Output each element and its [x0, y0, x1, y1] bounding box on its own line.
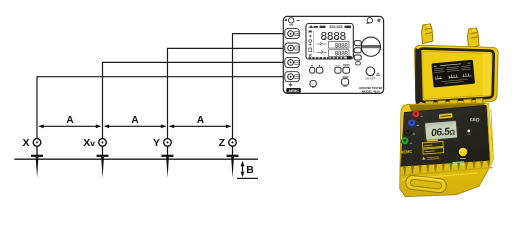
terminal post black — [404, 129, 412, 136]
on/off button — [365, 67, 379, 80]
LCD display frame — [306, 24, 353, 60]
model sticker 4630 — [439, 113, 453, 119]
panel yellow labels block — [421, 140, 444, 160]
lid face right highlight — [483, 53, 492, 95]
wire Xv — [103, 62, 285, 138]
display icon row — [310, 26, 352, 28]
case body — [400, 103, 494, 196]
input terminal E(X) — [285, 72, 300, 82]
svg-text:A: A — [66, 115, 73, 126]
svg-text:CE: CE — [470, 117, 476, 123]
hinge teeth between lid and body — [426, 98, 484, 107]
ground mark under terminals — [289, 83, 293, 87]
button pad mid pair — [335, 65, 350, 74]
input terminal ES(Xv) — [285, 57, 300, 67]
case latch left — [422, 24, 434, 44]
dimension arrow A2 — [104, 124, 167, 128]
stake Y — [162, 146, 174, 178]
AEMC logo badge — [286, 88, 301, 93]
dimension arrow B — [241, 161, 245, 178]
stake Z — [227, 146, 239, 178]
display second row digits — [317, 42, 350, 50]
stake Xv — [97, 146, 109, 178]
case latch right — [468, 28, 480, 48]
input terminal H(Z) — [285, 29, 300, 39]
input terminal S(Y) — [285, 43, 300, 53]
label mini diagrams — [435, 73, 472, 80]
wire Y — [168, 48, 285, 138]
terminal post blue — [408, 120, 416, 128]
hinge shadow gap — [409, 104, 489, 112]
dimension arrow A3 — [169, 124, 232, 128]
electrode X terminal — [33, 139, 41, 147]
svg-text:MODEL 4610: MODEL 4610 — [362, 89, 380, 93]
LCD window — [425, 120, 458, 140]
terminal post green — [401, 137, 409, 145]
tester panel outline U1 — [283, 16, 383, 93]
svg-text:A: A — [131, 115, 138, 126]
front rib teeth row — [403, 160, 490, 174]
stake X — [31, 146, 43, 178]
svg-text:B: B — [246, 164, 254, 176]
function buttons right of display — [354, 41, 361, 65]
warning row — [422, 156, 426, 159]
terminal jack top-left — [289, 18, 300, 26]
electrode Z terminal — [229, 139, 237, 147]
display left icon column — [309, 31, 314, 57]
terminal jack top-right — [366, 18, 373, 24]
body right ridge highlight — [484, 103, 493, 167]
svg-text:Xv: Xv — [83, 137, 95, 149]
svg-text:06.5: 06.5 — [431, 127, 451, 139]
svg-text:X: X — [22, 137, 29, 149]
screw top-left — [285, 19, 287, 21]
button pad left single — [310, 81, 316, 87]
indicator LED — [467, 130, 470, 133]
wire Z — [233, 34, 285, 139]
screw top-right — [378, 19, 380, 21]
svg-text:8888: 8888 — [335, 42, 349, 49]
display main digits 888.8 — [320, 31, 346, 44]
button pad mid single — [342, 76, 349, 86]
svg-text:Z: Z — [219, 137, 226, 149]
right column ridges — [487, 107, 493, 160]
rotary dial — [361, 37, 380, 56]
ground line — [14, 158, 258, 160]
lid left wall shadow — [415, 48, 423, 105]
TEST button — [457, 147, 468, 159]
lid inner face shading — [422, 51, 492, 99]
wire X — [37, 77, 285, 139]
electrode Y terminal — [164, 139, 172, 147]
front panel — [401, 105, 490, 166]
svg-text:A: A — [197, 115, 204, 126]
terminal id marks — [410, 116, 423, 143]
svg-text:8888: 8888 — [335, 51, 349, 58]
dimension arrow A1 — [38, 124, 101, 128]
electrode Xv terminal — [99, 139, 107, 147]
svg-text:ON/OFF: ON/OFF — [365, 76, 376, 80]
button pad left pair — [310, 65, 323, 73]
carry handle — [405, 175, 447, 194]
display third row digits — [317, 50, 350, 58]
lid seal ring — [419, 49, 494, 102]
display bottom banner — [309, 56, 352, 59]
depth reference line — [237, 177, 258, 179]
lid instruction label — [431, 60, 475, 88]
model text on panel — [452, 162, 464, 165]
model label text — [359, 86, 382, 93]
svg-text:AEMC: AEMC — [288, 89, 299, 93]
open lid outer shell — [414, 45, 498, 106]
svg-text:AEMC: AEMC — [400, 149, 412, 155]
svg-text:Ω: Ω — [449, 129, 456, 136]
terminal post red — [412, 110, 420, 118]
front skirt shading line — [402, 168, 493, 176]
svg-text:Y: Y — [153, 137, 160, 149]
